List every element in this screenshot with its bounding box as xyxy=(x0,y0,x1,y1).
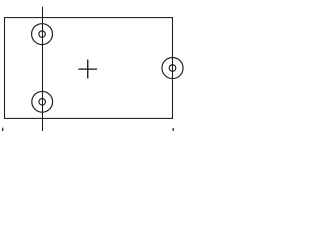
hole H3 right inner circle xyxy=(169,65,176,72)
hole H1 top-left inner circle xyxy=(39,31,46,38)
plate outline (rectangle) xyxy=(5,18,173,119)
bottom-right tick (lower view edge) xyxy=(172,128,174,131)
hole H2 bottom-left outer circle xyxy=(32,91,53,112)
hole H1 top-left outer circle xyxy=(32,24,53,45)
centerline through left holes xyxy=(42,7,44,131)
hole H3 right outer circle xyxy=(162,58,183,79)
center mark plus vertical xyxy=(87,60,89,79)
bottom-left tick (lower view edge) xyxy=(2,128,4,131)
hole H2 bottom-left inner circle xyxy=(39,99,46,106)
center mark plus horizontal xyxy=(78,68,97,70)
